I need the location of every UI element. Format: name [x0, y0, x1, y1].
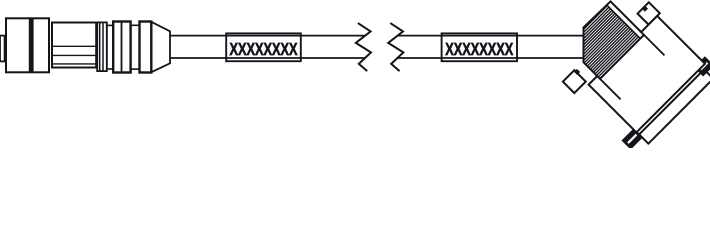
jack screw post top: [695, 57, 710, 75]
cable left segment bottom line: [170, 57, 364, 59]
thumbscrew tab top: [638, 2, 660, 24]
jack screw post bottom: [623, 129, 642, 148]
right angled D-sub connector: [546, 0, 710, 155]
jack screw post top slot: [701, 63, 708, 70]
connector body: [589, 16, 705, 132]
backshell top edge segment: [644, 35, 665, 56]
knurled ring 1: [113, 22, 130, 73]
thumbscrew tab bottom: [563, 70, 586, 93]
left connector body dark band: [29, 18, 34, 72]
barrel groove line 2: [52, 54, 96, 56]
break symbol left zigzag: [356, 23, 371, 71]
groove ring: [97, 22, 107, 71]
left circular connector rear tab: [0, 36, 5, 62]
strain relief hood: [566, 1, 644, 79]
svg-text:XXXXXXXX: XXXXXXXX: [230, 39, 298, 59]
jack screw post bottom slot: [628, 135, 636, 143]
barrel groove line 3: [52, 63, 96, 65]
d-sub face plate: [639, 69, 710, 143]
nose cone: [151, 22, 170, 72]
left connector barrel: [52, 23, 96, 68]
svg-text:XXXXXXXX: XXXXXXXX: [445, 39, 513, 59]
thumbscrew tab top notch: [642, 6, 648, 12]
backshell bottom edge segment: [600, 79, 621, 100]
groove ring inner line 1: [99, 22, 101, 71]
cable right segment bottom line: [397, 57, 583, 59]
hood top strip line: [607, 5, 641, 39]
ring 1 inner line: [121, 22, 123, 73]
thumbscrew tab bottom notch: [574, 69, 580, 75]
left connector main body: [6, 18, 49, 72]
barrel groove line 1: [52, 45, 96, 47]
cable left segment top line: [170, 35, 365, 37]
label box 1: [226, 33, 301, 61]
knurled ring 2: [140, 22, 152, 73]
cable right segment top line: [398, 35, 584, 37]
waist band 2: [130, 25, 139, 69]
groove ring inner line 2: [102, 22, 104, 71]
break symbol right zigzag: [388, 23, 403, 71]
label box 2: [442, 33, 517, 61]
waist band 1: [107, 25, 113, 69]
